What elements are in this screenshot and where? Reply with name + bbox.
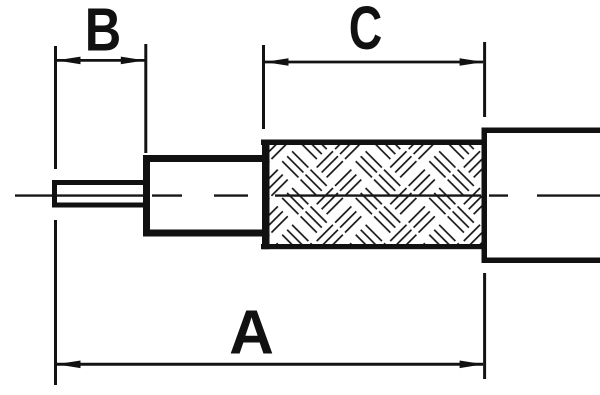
svg-text:C: C <box>349 0 383 62</box>
svg-text:A: A <box>229 299 274 368</box>
svg-text:B: B <box>85 0 122 64</box>
